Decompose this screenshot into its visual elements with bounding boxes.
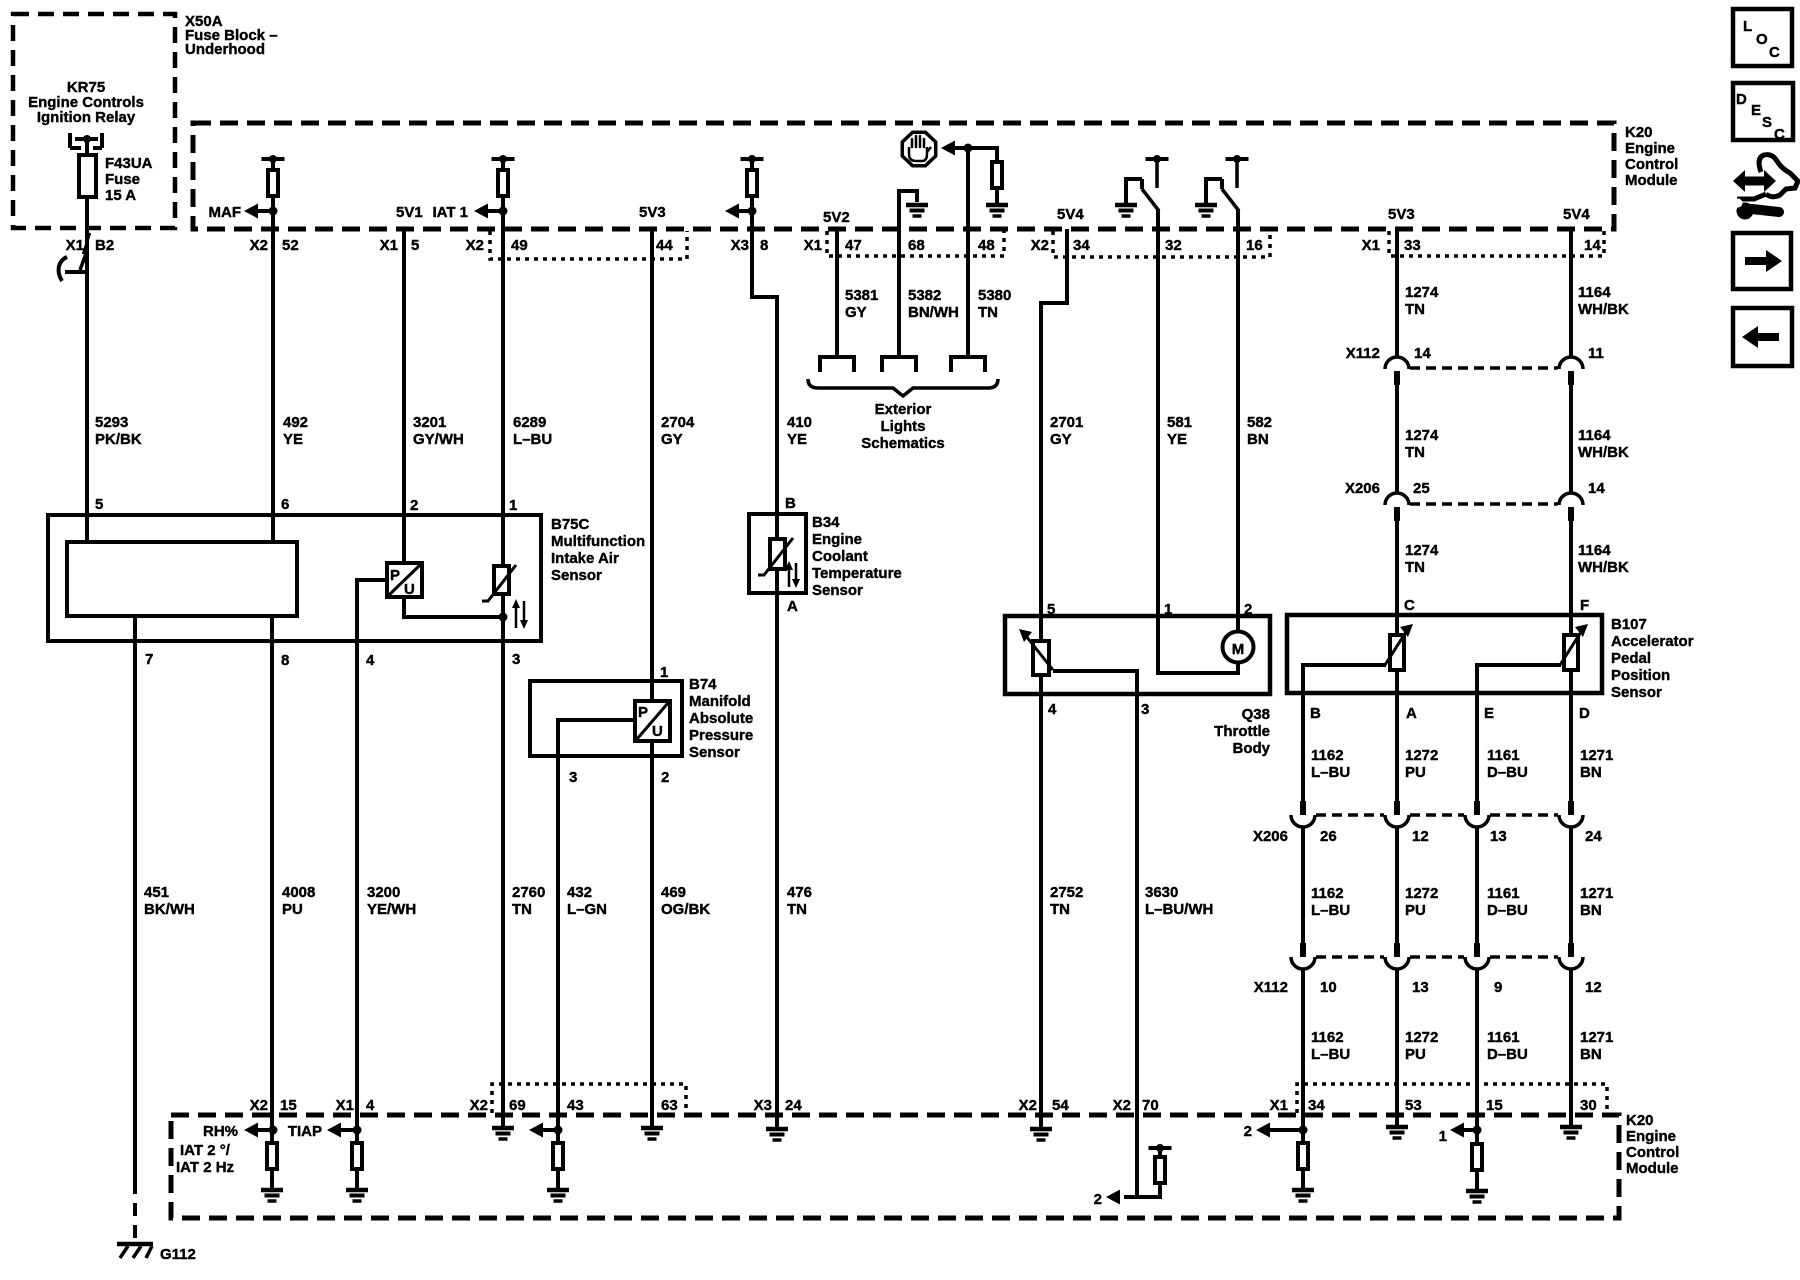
wire 1272 PU B107 pin A to X206 [1395,670,1399,801]
icon box LOC [1733,9,1792,66]
fuse block X50A dashed box [13,14,175,228]
resistor MAF pull-up [268,170,278,196]
svg-text:Multifunction: Multifunction [551,533,645,550]
label wire 1274 TN (top) [1405,284,1439,318]
potentiometer Q38 [1019,629,1053,675]
svg-text:1161: 1161 [1487,747,1520,764]
svg-text:70: 70 [1142,1097,1159,1114]
wire 5381 GY from ECM pin 47 to exterior lights [835,229,839,357]
potentiometer B107 left [1385,624,1413,670]
svg-text:E: E [1751,102,1761,119]
svg-text:3200: 3200 [367,884,400,901]
wire 1164 WH/BK X206 to B107 pin F [1569,521,1573,637]
connector X206 pin 13 (lower) [1465,801,1489,827]
svg-text:11: 11 [1588,345,1604,362]
thermistor arrows B75C [512,599,528,629]
svg-text:X112: X112 [1254,979,1288,996]
svg-text:Underhood: Underhood [185,41,265,58]
label wire 1161 D-BU (row2) [1487,885,1528,919]
svg-text:5V1: 5V1 [396,204,423,221]
terminal T-bar above pin 8 resistor [741,155,764,163]
svg-text:5380: 5380 [978,287,1011,304]
label KR75 Engine Controls Ignition Relay [28,79,144,126]
svg-text:OG/BK: OG/BK [661,901,710,918]
label X112 upper [1346,345,1380,362]
svg-text:F43UA: F43UA [105,155,153,172]
wire B75C pin 4 (3200 YE/WH) to ECM pin 4 [357,580,388,1113]
label IAT 1 [432,204,468,221]
svg-text:TN: TN [1405,301,1425,318]
svg-text:69: 69 [509,1097,526,1114]
label wire 432 L-GN [567,884,607,918]
svg-text:53: 53 [1405,1097,1422,1114]
pin labels Q38 top 5 1 2 [1047,601,1252,618]
wire stub pin 4 to resistor [355,1113,359,1142]
svg-text:1274: 1274 [1405,427,1439,444]
label wire 1274 TN (lower) [1405,542,1439,576]
arrow at pin 34 [1256,1123,1303,1138]
arrow at pin 15 right [1450,1123,1477,1138]
terminal T-bar pin 70 branch [1149,1144,1172,1156]
resistor pin 15 node [267,1143,277,1169]
wire 5382 BN/WH from ECM pin 68 to exterior lights [897,189,901,357]
svg-text:1274: 1274 [1405,284,1439,301]
dotted connector box pins 69-43-63 [492,1084,686,1113]
svg-text:C: C [1404,597,1415,614]
svg-text:32: 32 [1165,237,1182,254]
svg-text:L–BU: L–BU [1311,1046,1350,1063]
label wire 1162 L-BU (row1) [1311,747,1350,781]
wire stub pin 15 to resistor [270,1113,274,1142]
label wire 581 YE [1167,414,1192,448]
svg-text:X1: X1 [1270,1097,1288,1114]
svg-text:PK/BK: PK/BK [95,431,142,448]
svg-text:B: B [785,495,796,512]
label wire 1274 TN (mid) [1405,427,1439,461]
wire 1164 WH/BK ECM pin 14 to X112 [1569,229,1573,357]
svg-text:Exterior: Exterior [875,401,932,418]
svg-text:15: 15 [1486,1097,1503,1114]
svg-text:D: D [1736,91,1747,108]
K20 Engine Control Module bottom dashed box [171,1115,1619,1218]
wire 1161 D-BU X206 to X112 [1475,827,1479,943]
svg-text:PU: PU [282,901,303,918]
label wire 1272 PU (row2) [1405,885,1438,919]
svg-text:X206: X206 [1345,480,1380,497]
pin labels Q38 bottom 4 3 [1048,701,1149,718]
label X112 lower [1254,979,1288,996]
svg-text:13: 13 [1490,828,1507,845]
wire 1274 TN X112 to X206 [1395,385,1399,493]
label MAF [209,204,242,221]
svg-text:D: D [1579,705,1590,722]
svg-text:4: 4 [366,1097,375,1114]
fuse F43UA [79,155,96,197]
svg-text:54: 54 [1052,1097,1069,1114]
svg-text:4: 4 [1048,701,1057,718]
label wire 4008 PU [282,884,315,918]
ground at pin 53 [1386,1113,1408,1138]
ground below pin 34 resistor [1292,1169,1314,1201]
wire stub pin 43 to resistor [556,1113,560,1142]
svg-text:S: S [1762,114,1772,131]
wire 1271 BN X206 to X112 [1569,827,1573,943]
svg-text:D–BU: D–BU [1487,1046,1528,1063]
pin label X2 34 [1031,237,1091,254]
junction dot pin 34 node [1299,1126,1308,1135]
icon box arrow left [1733,308,1792,366]
label wire 5381 GY [845,287,878,321]
pin label B74 1 [660,664,668,681]
wire 1161 D-BU X112 to ECM pin 15 [1475,969,1479,1113]
svg-text:13: 13 [1412,979,1429,996]
svg-text:X206: X206 [1253,828,1288,845]
svg-text:1274: 1274 [1405,542,1439,559]
svg-text:43: 43 [567,1097,584,1114]
label wire 1162 L-BU (row3) [1311,1029,1350,1063]
svg-text:5381: 5381 [845,287,878,304]
svg-text:X1: X1 [66,237,84,254]
wire B75C pin 7 to G112 (451 BK/WH) [133,616,137,1181]
label RH% [203,1123,238,1140]
wire 5380 TN from node through pin 48 to exterior lights [966,148,970,357]
svg-text:YE: YE [1167,431,1187,448]
svg-text:Q38: Q38 [1242,706,1270,723]
svg-text:Engine: Engine [1625,140,1675,157]
svg-text:1271: 1271 [1580,747,1613,764]
svg-text:YE: YE [787,431,807,448]
svg-text:B75C: B75C [551,516,590,533]
pin label F [1580,597,1589,614]
label wire 469 OG/BK [661,884,710,918]
svg-text:1: 1 [509,497,517,514]
svg-text:52: 52 [282,237,299,254]
svg-text:TN: TN [787,901,807,918]
svg-text:Engine: Engine [1626,1128,1676,1145]
svg-text:L–BU: L–BU [1311,902,1350,919]
connector X112 pin 9 (lower) [1465,943,1489,969]
svg-text:X2: X2 [250,237,268,254]
svg-text:U: U [404,581,415,598]
svg-text:A: A [787,598,798,615]
junction dot pin 4 node [353,1126,362,1135]
svg-text:2: 2 [1244,1123,1252,1140]
label X206 upper [1345,480,1380,497]
pin labels bottom X3 24 X2 54 X2 70 [754,1097,1159,1114]
label wire 3630 L-BU/WH [1145,884,1213,918]
resistor pin 34 node [1298,1143,1308,1169]
label wire 5293 PK/BK [95,414,142,448]
svg-text:Ignition Relay: Ignition Relay [37,109,136,126]
P/U output to thermistor junction [404,597,503,617]
svg-text:MAF: MAF [209,204,242,221]
wire 5293 PK/BK from relay through fuse to B75C pin 5 [85,140,89,542]
dashed mating line X112 lower [1316,955,1558,959]
pin label 14 at X112 [1414,345,1431,362]
arrow at wire 3630 tail [1106,1190,1120,1205]
svg-text:24: 24 [1585,828,1602,845]
svg-text:IAT 1: IAT 1 [432,204,468,221]
svg-text:Position: Position [1611,667,1670,684]
svg-text:IAT 2 Hz: IAT 2 Hz [176,1159,234,1176]
resistor pin 70 branch [1155,1157,1165,1183]
svg-text:K20: K20 [1625,124,1653,141]
K20 Engine Control Module top dashed box [193,123,1614,229]
arrow TIAP at pin 4 [327,1123,357,1138]
pin labels bottom X2 69 43 63 [470,1097,678,1114]
svg-text:X3: X3 [731,237,749,254]
dotted connector box pins 47-68-48 [827,231,1004,256]
svg-text:5293: 5293 [95,414,128,431]
svg-text:432: 432 [567,884,592,901]
svg-text:Sensor: Sensor [812,582,863,599]
svg-text:8: 8 [281,652,289,669]
pin label X3 8 [731,237,769,254]
label Exterior Lights Schematics [861,401,944,452]
ground jog at pin 68 [899,191,928,216]
svg-text:1271: 1271 [1580,885,1613,902]
label wire 2752 TN [1050,884,1083,918]
svg-text:Module: Module [1626,1160,1679,1177]
svg-text:X2: X2 [1019,1097,1037,1114]
svg-text:10: 10 [1320,979,1337,996]
svg-text:6289: 6289 [513,414,546,431]
ground of switch pin 32 [1115,205,1137,216]
svg-text:3201: 3201 [413,414,446,431]
svg-text:Sensor: Sensor [1611,684,1662,701]
pin label A [787,598,798,615]
label wire 410 YE [787,414,812,448]
svg-text:Lights: Lights [881,418,926,435]
dashed mating line X206 lower [1316,813,1558,817]
label wire 3201 GY/WH [413,414,464,448]
brace exterior lights [808,379,998,396]
svg-text:YE: YE [283,431,303,448]
svg-text:M: M [1232,641,1245,658]
label F43UA Fuse 15 A [105,155,153,204]
label wire 2701 GY [1050,414,1083,448]
wire 1162 L-BU X206 to X112 [1301,827,1305,943]
svg-text:Sensor: Sensor [689,744,740,761]
junction dot pin 15 node [269,1126,278,1135]
svg-text:5: 5 [95,496,103,513]
svg-text:15 A: 15 A [105,187,136,204]
svg-text:1162: 1162 [1311,885,1344,902]
svg-text:P: P [390,567,400,584]
svg-text:24: 24 [785,1097,802,1114]
junction dot MAF [269,207,278,216]
B107 accelerator pedal position sensor box [1287,615,1602,693]
svg-text:L–BU: L–BU [513,431,552,448]
svg-text:X2: X2 [466,237,484,254]
wire Q38 pin 1 to motor [1158,616,1238,673]
pin label X1 B2 [66,237,115,254]
svg-text:RH%: RH% [203,1123,238,1140]
svg-text:1161: 1161 [1487,1029,1520,1046]
resistor pin 43 node [553,1143,563,1169]
connector X206 pin 25 (upper) [1385,493,1409,521]
dotted connector box pins 34-32-16 [1053,231,1270,257]
svg-text:L–BU/WH: L–BU/WH [1145,901,1213,918]
svg-text:L: L [1743,18,1752,35]
svg-text:Temperature: Temperature [812,565,902,582]
wire 492 YE from MAF node to B75C pin 6 [271,159,275,542]
svg-text:B34: B34 [812,514,840,531]
pin label X2 49 [466,237,528,254]
svg-text:492: 492 [283,414,308,431]
ground at pin 54 [1030,1113,1052,1140]
svg-text:Body: Body [1233,740,1271,757]
ground at pin 69 [492,1113,514,1139]
B74 sensor box [530,681,682,756]
svg-text:30: 30 [1580,1097,1597,1114]
label IAT 2 / IAT 2 Hz [176,1142,234,1176]
svg-text:WH/BK: WH/BK [1578,444,1629,461]
connector X206 pin 24 (lower) [1559,801,1583,827]
svg-text:2: 2 [1244,601,1252,618]
svg-text:582: 582 [1247,414,1272,431]
svg-text:X2: X2 [1031,237,1049,254]
svg-text:BN: BN [1247,431,1269,448]
dotted connector box pins 34-53-15-30 [1297,1084,1607,1113]
svg-text:4008: 4008 [282,884,315,901]
resistor at stop node [992,146,1002,188]
arrow at pin 43 [529,1123,558,1138]
svg-text:2: 2 [661,769,669,786]
resistor pin 8 pull-up [747,170,757,196]
svg-text:L–GN: L–GN [567,901,607,918]
svg-text:BN: BN [1580,1046,1602,1063]
label wire 1164 WH/BK (top) [1578,284,1629,318]
svg-text:469: 469 [661,884,686,901]
label wire 1272 PU (row1) [1405,747,1438,781]
wire Q38 pin 4 (2752 TN) to ECM pin 54 [1039,675,1043,1113]
svg-text:14: 14 [1414,345,1431,362]
svg-text:5V2: 5V2 [823,209,850,226]
label 2 at wire 3630 tail [1094,1191,1102,1208]
svg-text:15: 15 [280,1097,297,1114]
ground below pin 15 right resistor [1466,1170,1488,1202]
pin label 16 [1246,237,1263,254]
label wire 492 YE [283,414,308,448]
svg-text:B: B [1310,705,1321,722]
svg-text:8: 8 [760,237,768,254]
ground at pin 63 [641,1113,663,1139]
label 5V4 (pin 14) [1563,206,1590,223]
svg-text:K20: K20 [1626,1112,1654,1129]
svg-text:B2: B2 [95,237,114,254]
pin labels X112 lower 10 13 9 12 [1320,979,1602,996]
wire B74 pin 3 (432 L-GN) to ECM pin 43 [558,720,635,1113]
thermistor B75C [482,565,516,601]
pin labels X206 lower 26 12 13 24 [1320,828,1602,845]
pin label C [1404,597,1415,614]
wire 1274 TN ECM pin 33 to X112 [1395,229,1399,357]
resistor pin 4 node [352,1143,362,1169]
wire stub pin 34 to resistor [1301,1113,1305,1142]
junction dot pin 8 [748,207,757,216]
label 5V3 (pin 44) [639,204,666,221]
label 5V2 [823,209,850,226]
svg-text:PU: PU [1405,902,1426,919]
svg-text:451: 451 [144,884,169,901]
svg-text:1161: 1161 [1487,885,1520,902]
svg-text:Control: Control [1625,156,1678,173]
svg-text:E: E [1484,705,1494,722]
dotted connector box pins 33-14 [1389,231,1604,256]
arrow RH% at pin 15 [244,1123,273,1138]
wire 581 YE from ECM pin 32 to Q38 pin 1 [1156,209,1160,616]
svg-text:1164: 1164 [1578,427,1611,444]
wire 1164 WH/BK X112 to X206 [1569,385,1573,493]
svg-text:5V3: 5V3 [1388,206,1415,223]
dashed wire to G112 [133,1181,137,1244]
junction dot pin 43 node [554,1126,563,1135]
svg-text:C: C [1774,126,1785,143]
label wire 1272 PU (row3) [1405,1029,1438,1063]
svg-text:5: 5 [1047,601,1055,618]
svg-text:3: 3 [512,651,520,668]
icon box DESC [1733,83,1793,143]
svg-text:B74: B74 [689,676,717,693]
label B34 Engine Coolant Temperature Sensor [812,514,902,599]
wire 2760 TN from B75C pin 3 to ECM pin 69 [501,641,505,1116]
svg-text:A: A [1406,705,1417,722]
label wire 1271 BN (row3) [1580,1029,1613,1063]
label 1 at pin 15 arrow [1439,1128,1447,1145]
svg-text:Accelerator: Accelerator [1611,633,1694,650]
connector X206 pin 26 (lower) [1291,801,1315,827]
wire B75C pin 8 (4008 PU) to ECM pin 15 [270,616,274,1113]
label 5V4 (pin 34) [1057,206,1084,223]
wire 2704 GY from ECM pin 44 to B74 pin 1 [650,229,654,705]
terminal bracket exterior lights wire 5381 [820,357,854,372]
label wire 6289 L-BU [513,414,552,448]
svg-text:5V4: 5V4 [1057,206,1084,223]
connector X206 pin 12 (lower) [1385,801,1409,827]
svg-text:P: P [638,704,648,721]
wire 3201 GY/WH from ECM pin 5 to B75C pin 2 [402,229,406,565]
resistor pin 15 right node [1472,1144,1482,1170]
pin label X1 47 68 48 [804,237,995,254]
arrow from stop node to octagon [941,141,997,156]
svg-text:G112: G112 [160,1246,196,1263]
pin labels B75C bottom 7 8 4 3 [145,651,520,669]
pin label 32 [1165,237,1182,254]
wire 476 TN B34 pin A to ECM pin 24 [775,569,779,1113]
svg-text:1271: 1271 [1580,1029,1613,1046]
svg-text:BN/WH: BN/WH [908,304,959,321]
svg-text:1272: 1272 [1405,885,1438,902]
dotted connector box pins 49-44 [490,231,687,259]
svg-text:12: 12 [1412,828,1429,845]
svg-text:5382: 5382 [908,287,941,304]
wire 1271 BN X112 to ECM pin 30 [1569,969,1573,1113]
svg-text:44: 44 [656,237,673,254]
pin labels B107 B A E D [1310,705,1590,722]
label K20 Engine Control Module (bottom right) [1626,1112,1679,1177]
svg-text:GY: GY [1050,431,1072,448]
svg-text:X1: X1 [336,1097,354,1114]
svg-text:6: 6 [281,496,289,513]
svg-text:GY: GY [845,304,867,321]
svg-text:WH/BK: WH/BK [1578,559,1629,576]
label wire 1164 WH/BK (mid) [1578,427,1629,461]
svg-text:X3: X3 [754,1097,772,1114]
pin label X1 5 [380,237,420,254]
ground below stop-node resistor [986,188,1008,216]
pin label B [785,495,796,512]
